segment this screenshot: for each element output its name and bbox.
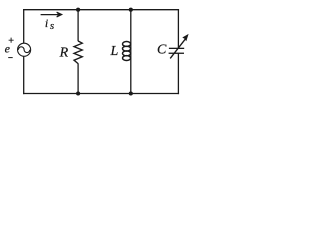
wire R branch upper bbox=[77, 10, 79, 42]
wire left upper bbox=[23, 9, 25, 43]
wire left lower bbox=[23, 56, 25, 94]
wire right lower bbox=[177, 53, 179, 94]
svg-text:L: L bbox=[110, 44, 119, 59]
svg-text:R: R bbox=[59, 46, 69, 61]
source e (AC) circle bbox=[18, 43, 31, 56]
source sine wave bbox=[18, 47, 29, 53]
wire R branch lower bbox=[77, 63, 79, 93]
inductor L stem bbox=[130, 10, 132, 94]
wire top bbox=[23, 9, 179, 11]
svg-text:C: C bbox=[157, 43, 167, 58]
junction dot bottom L bbox=[129, 91, 133, 95]
junction dot top L bbox=[129, 8, 133, 12]
resistor R bbox=[74, 41, 82, 64]
capacitor variable arrow bbox=[170, 39, 185, 58]
capacitor C bottom plate bbox=[169, 52, 184, 54]
junction dot top R bbox=[76, 8, 80, 12]
label + (source polarity) bbox=[9, 38, 14, 43]
label - (source polarity) bbox=[8, 57, 13, 59]
svg-text:s: s bbox=[50, 20, 54, 32]
junction dot bottom R bbox=[76, 91, 80, 95]
current arrow i_s bbox=[41, 14, 61, 16]
svg-text:e: e bbox=[5, 42, 11, 56]
capacitor C top plate bbox=[169, 47, 184, 49]
wire right upper bbox=[177, 9, 179, 48]
svg-text:i: i bbox=[45, 16, 48, 30]
inductor L coil loops bbox=[123, 42, 131, 47]
wire bottom bbox=[23, 93, 179, 95]
